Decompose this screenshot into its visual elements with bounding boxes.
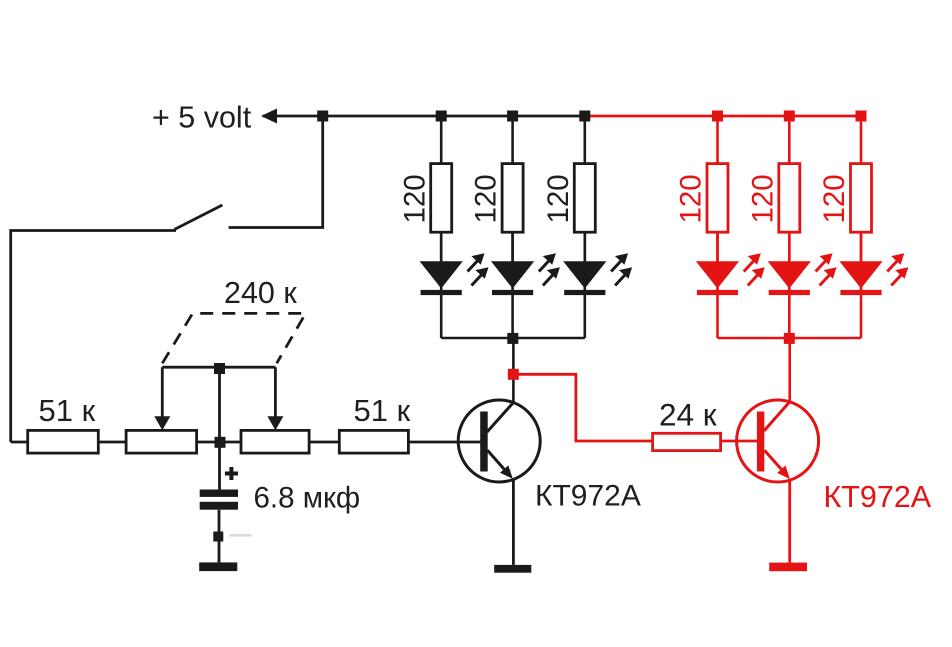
pot dashed outline	[162, 313, 305, 363]
LED D5	[768, 232, 837, 295]
pot arrow right	[274, 367, 277, 419]
node rail-R120-2	[507, 111, 518, 122]
wire LED1 down	[440, 295, 443, 338]
wire bus to Q1 collector	[512, 338, 515, 404]
LED D6	[839, 232, 908, 295]
transistor Q1 emitter	[487, 450, 504, 469]
resistor R-51k-left	[28, 430, 99, 453]
ground cap	[199, 562, 237, 571]
wire wiper bar	[162, 366, 275, 369]
wire rail to R120-5	[788, 116, 791, 164]
LED D1	[420, 232, 489, 295]
svg-text:120: 120	[398, 174, 431, 223]
wire switch left	[11, 231, 176, 443]
LED D4	[696, 232, 765, 295]
wire R120-2 to LED2	[511, 232, 514, 261]
resistor R-240k-B	[241, 430, 309, 453]
node below cap	[213, 532, 223, 542]
resistor R-240k-A	[126, 430, 197, 453]
node rail-R120-5	[784, 111, 795, 122]
svg-text:+ 5 volt: + 5 volt	[152, 101, 252, 135]
wire R120-4 to LED4	[716, 232, 719, 261]
wire R120-3 to LED3	[583, 232, 586, 261]
ground Q1	[494, 565, 531, 573]
resistor R-51k-right	[339, 430, 408, 453]
svg-text:120: 120	[675, 174, 708, 223]
wire R3-R4	[309, 441, 339, 444]
resistor R120-3	[574, 164, 595, 233]
resistor R120-5	[779, 164, 800, 233]
svg-text:24 к: 24 к	[659, 397, 717, 433]
pot arrow left	[161, 367, 164, 419]
wire rail to R120-2	[511, 116, 514, 164]
wire wiper down	[218, 369, 221, 438]
wire LED4 down	[716, 295, 719, 338]
svg-text:120: 120	[818, 174, 851, 223]
wire rail to R120-3	[583, 116, 586, 164]
transistor Q1 circle	[458, 400, 540, 482]
svg-text:120: 120	[542, 174, 575, 223]
wire R120-6 to LED6	[860, 232, 863, 261]
wire cap to ground	[218, 510, 221, 563]
wire wiper node to cap	[218, 447, 221, 490]
transistor Q2 circle	[737, 400, 819, 482]
wire R24k to Q2 base	[721, 440, 758, 443]
wire LED bus red	[718, 337, 862, 340]
wire R2-R3	[197, 441, 241, 444]
resistor R120-6	[851, 164, 872, 233]
wire top rail black	[263, 115, 585, 118]
wire LED6 down	[860, 295, 863, 338]
LED D3	[563, 232, 632, 295]
node LED bus red	[784, 333, 795, 344]
wire Q1 emitter down	[512, 479, 515, 565]
wire tap to R24k	[518, 374, 653, 441]
switch blade SA1	[174, 205, 222, 230]
wire LED5 down	[788, 295, 791, 338]
svg-text:120: 120	[470, 174, 503, 223]
wire switch to rail	[229, 116, 323, 228]
wire LED3 down	[583, 295, 586, 338]
wire rail to R120-6	[860, 116, 863, 164]
wire top rail red	[585, 115, 861, 118]
node main-wiper	[215, 437, 226, 448]
capacitor C1 plate bottom	[200, 502, 238, 510]
node wiper	[214, 363, 225, 374]
wire rail to R120-4	[716, 116, 719, 164]
transistor Q1 base bar	[480, 412, 488, 472]
arrow to +5 volt	[261, 109, 277, 124]
transistor Q2 collector	[764, 401, 790, 431]
node rail-R120-4	[712, 111, 723, 122]
wire R4 to Q1 base	[408, 441, 481, 444]
wire R120-1 to LED1	[440, 232, 443, 261]
ground Q2	[769, 563, 807, 572]
label plus	[225, 467, 238, 480]
svg-text:51 к: 51 к	[39, 393, 96, 428]
LED D2	[491, 232, 560, 295]
node rail-R120-3	[579, 111, 590, 122]
wire R1-R2	[98, 441, 126, 444]
wire LED2 down	[511, 295, 514, 338]
wire rail to R120-1	[440, 116, 443, 164]
transistor Q2 base bar	[757, 412, 764, 472]
transistor Q2 emitter	[764, 450, 781, 469]
svg-text:КТ972А: КТ972А	[535, 480, 641, 513]
wire R120-5 to LED5	[788, 232, 791, 261]
svg-text:51 к: 51 к	[354, 393, 411, 428]
node Q1 collector tap	[508, 369, 519, 380]
wire Q2 emitter down	[788, 479, 791, 563]
resistor R24k	[653, 433, 721, 450]
node rail-R120-1	[436, 111, 447, 122]
wire LED bus black	[441, 337, 585, 340]
wire bus to Q2 collector	[788, 338, 791, 402]
svg-text:6.8 мкф: 6.8 мкф	[254, 482, 361, 515]
node rail-switch	[317, 111, 328, 122]
svg-text:120: 120	[746, 174, 779, 223]
resistor R120-4	[707, 164, 728, 233]
faint artifact line	[229, 534, 251, 537]
transistor Q1 collector	[487, 402, 514, 433]
node LED bus	[507, 333, 518, 344]
node rail-R120-6	[856, 111, 867, 122]
svg-text:240 к: 240 к	[224, 276, 297, 310]
resistor R120-1	[431, 164, 452, 233]
capacitor C1 plate top	[200, 490, 238, 497]
svg-text:КТ972А: КТ972А	[824, 480, 932, 514]
resistor R120-2	[502, 164, 523, 233]
wire main left	[11, 441, 28, 444]
